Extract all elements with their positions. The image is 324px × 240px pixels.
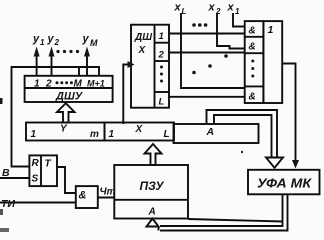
svg-text:1: 1 — [268, 24, 274, 36]
svg-text:1: 1 — [40, 38, 45, 47]
svg-text:R: R — [32, 158, 40, 169]
svg-text:ДШ: ДШ — [134, 32, 152, 43]
svg-text:1: 1 — [235, 7, 240, 16]
svg-text:y: y — [47, 33, 55, 45]
svg-text:1: 1 — [34, 79, 40, 90]
svg-text:x: x — [227, 2, 235, 14]
svg-text:L: L — [164, 129, 170, 140]
svg-text:УФА МК: УФА МК — [257, 176, 312, 191]
svg-text:T: T — [45, 159, 52, 170]
svg-text:М: М — [74, 79, 83, 90]
svg-text:y: y — [82, 33, 90, 45]
svg-text:1: 1 — [31, 129, 37, 140]
svg-text:ДШУ: ДШУ — [55, 91, 84, 103]
svg-text:1: 1 — [109, 129, 115, 140]
svg-text:L: L — [182, 7, 187, 16]
svg-text:&: & — [249, 26, 256, 37]
svg-text:2: 2 — [45, 79, 52, 90]
svg-text:ПЗУ: ПЗУ — [140, 179, 165, 193]
svg-text:1: 1 — [159, 31, 164, 42]
svg-text:М: М — [90, 38, 98, 48]
svg-text:m: m — [90, 129, 99, 140]
svg-text:S: S — [32, 174, 39, 185]
svg-text:x: x — [174, 2, 182, 14]
svg-text:2: 2 — [158, 50, 165, 61]
svg-text:ТИ: ТИ — [1, 198, 15, 210]
svg-text:&: & — [249, 42, 256, 53]
svg-text:2: 2 — [215, 7, 221, 16]
svg-text:М+1: М+1 — [87, 79, 105, 89]
svg-text:В: В — [2, 167, 10, 179]
svg-text:&: & — [249, 92, 256, 103]
svg-text:А: А — [206, 126, 215, 138]
svg-text:x: x — [208, 2, 216, 14]
svg-text:y: y — [32, 33, 40, 45]
svg-text:L: L — [159, 97, 165, 108]
svg-text:&: & — [79, 190, 87, 202]
svg-text:2: 2 — [54, 38, 60, 47]
svg-text:Y: Y — [60, 124, 68, 135]
svg-text:А: А — [148, 207, 156, 218]
svg-text:X: X — [135, 124, 144, 135]
svg-text:X: X — [138, 45, 147, 56]
svg-text:Чт: Чт — [100, 187, 116, 198]
